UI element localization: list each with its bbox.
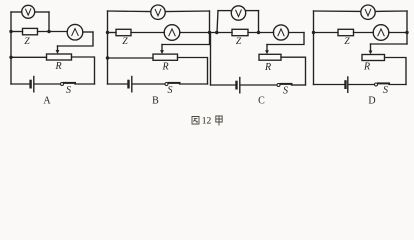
wire: D row2 left segment [314,32,339,34]
ammeter A (C) [273,25,288,40]
voltmeter V (D) [361,5,375,19]
rheostat R (D) [362,55,385,61]
wire: B left vertical [107,11,109,84]
ammeter A (D) [373,25,389,41]
svg-text:S: S [168,85,173,96]
wire: B right vertical from top corner to slider bracket [209,11,211,45]
wire: D top, left corner to voltmeter [314,10,361,12]
svg-text:Z: Z [122,37,128,47]
wire: A left vertical [10,12,12,84]
slider arrow (A) [57,46,59,51]
resistor Z (C) [232,29,248,35]
ammeter A (B) [164,25,180,41]
rheostat R (B) [153,54,178,60]
rheostat R (A) [47,54,72,60]
slider arrow (B) [161,45,163,51]
node: C junction V-right-row2 [257,31,260,34]
wire: A top, voltmeter to right corner [35,11,49,13]
wire: C row2 from outer-left stub through Z [211,32,233,34]
rheostat R (C) [259,54,281,60]
voltmeter V (B) [151,5,165,19]
wire: B top, voltmeter to right corner [165,10,209,13]
switch S (A) [61,83,64,86]
wire: C top, voltmeter to right corner [246,10,259,12]
svg-text:B: B [152,96,159,107]
slider arrow (C) [266,45,268,51]
wire: C left outer vertical [210,33,212,86]
wire: C drop from ammeter down and left to slider [267,33,304,45]
wire: C voltmeter left drop to row2 [217,11,218,33]
svg-text:Z: Z [24,37,30,47]
wire: B top, left corner to voltmeter [108,10,151,13]
battery (D) [344,81,346,87]
wire: A row3 left vertical to rheostat [11,56,47,58]
svg-text:Z: Z [236,37,242,47]
wire: C row2, Z to ammeter [248,32,274,34]
ammeter A (A) [67,24,83,40]
wire: C top, left corner to voltmeter [218,10,232,12]
svg-text:S: S [283,86,288,97]
wire: C ammeter to right corner [289,32,304,34]
svg-text:S: S [383,85,388,96]
wire: A row2, Z to ammeter [38,31,68,33]
battery (A) [29,81,31,87]
node: D junction right-row2 [405,31,408,34]
resistor Z (B) [116,29,131,35]
wire: B row3 left vertical to rheostat [108,57,154,59]
wire: D switch to right corner [389,84,406,86]
caption glyph 甲 [216,116,222,126]
wire: D ammeter to right vertical [389,32,407,34]
wire: D battery to switch [349,84,375,86]
wire: D top, voltmeter to right corner [375,10,407,12]
wire: D left vertical [313,11,315,85]
svg-text:R: R [161,62,168,73]
wire: D rheostat right to outer right vertical [385,58,407,85]
wire: A row2 left segment [11,31,23,33]
wire: D right vertical from top corner to slider bracket [406,11,408,44]
svg-text:S: S [66,85,71,96]
resistor Z (D) [338,29,354,35]
svg-text:D: D [368,96,375,107]
node: C junction top-left drop [215,31,218,34]
node: D junction left-row2 [312,31,315,34]
wire: B row2 left segment [108,32,117,34]
svg-text:R: R [264,62,271,73]
svg-text:C: C [258,96,265,107]
node: A junction V-right-row2 [47,30,50,33]
svg-text:A: A [43,96,51,107]
wire: D slider feed from right vertical [371,43,408,45]
wire: A switch to right corner [75,83,95,85]
voltmeter V (A) [22,5,35,18]
slider arrow (D) [370,44,372,51]
wire: A top, left vertical to voltmeter [11,11,22,13]
switch S (C) [277,84,280,87]
battery (B) [127,81,129,87]
wire: B battery to switch [133,83,165,85]
wire: B bottom left to battery [108,83,128,85]
switch S (D) [375,83,378,86]
wire: B rheostat right to outer right vertical [178,58,208,85]
svg-text:12: 12 [202,117,212,127]
voltmeter V (C) [231,6,245,20]
wire: C bottom left to battery [211,84,236,86]
node: A junction left-row2 [9,30,12,33]
wire: C rheostat right to outer right vertical [281,57,306,85]
wire: A bottom left to battery [11,83,30,85]
node: B junction left-row3 [106,56,109,59]
resistor Z (A) [23,28,38,34]
wire: D row2, Z to ammeter [354,32,374,34]
node: B junction right-row2 [208,31,211,34]
switch S (B) [165,83,168,86]
wire: A voltmeter right drop to row2 [48,12,50,32]
wire: C battery to switch [241,84,277,86]
wire: B slider feed from right vertical [162,44,210,46]
wire: C switch to right corner [292,84,306,86]
wire: A ammeter to right corner [83,31,93,33]
wire: A battery to switch [35,83,60,85]
svg-text:R: R [54,61,61,72]
battery (C) [235,82,237,88]
wire: A rheostat right to outer right vertical [72,57,95,84]
caption glyph 图 [192,117,199,125]
wire: B ammeter to right vertical [180,32,210,34]
node: A junction left-row3 [9,56,12,59]
caption: 图 12 甲 [192,116,222,126]
wire: C voltmeter right drop to row2 [258,11,260,33]
wire: B switch to right corner [180,83,208,85]
svg-text:Z: Z [344,37,350,47]
wire: D bottom left to battery [314,84,345,86]
wire: B row2, Z to ammeter [131,32,164,34]
svg-text:R: R [363,62,370,73]
node: B junction left-row2 [106,31,109,34]
wire: A drop from ammeter down and left to slider [58,32,94,46]
